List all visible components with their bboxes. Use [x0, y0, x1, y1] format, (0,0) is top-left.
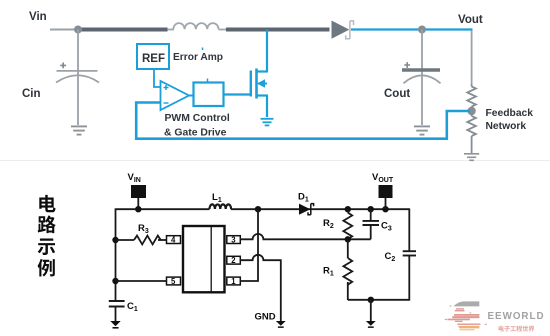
svg-text:D1: D1 — [298, 192, 309, 204]
node Cout junction — [418, 26, 426, 34]
ground GND arrow — [276, 321, 286, 328]
box REF — [137, 44, 169, 69]
wire pin5 to left rail — [116, 280, 167, 282]
pin 5 — [167, 277, 181, 286]
wire to ground — [370, 300, 372, 321]
resistor feedback lower — [467, 112, 476, 153]
svg-text:C2: C2 — [385, 251, 396, 263]
diode D1 — [299, 204, 314, 215]
box PWM block — [194, 79, 224, 107]
svg-text:3: 3 — [231, 236, 236, 245]
ground Cout — [414, 126, 430, 134]
svg-text:GND: GND — [255, 312, 276, 323]
svg-text:Cout: Cout — [384, 88, 410, 100]
wire bottom rail — [348, 299, 410, 301]
wire input thin — [50, 29, 80, 31]
wire feedback loop (cyan) — [136, 103, 470, 139]
svg-text:EEWORLD: EEWORLD — [488, 311, 545, 322]
label PWM Control & Gate Drive — [164, 113, 230, 139]
resistor R2 — [343, 209, 352, 239]
svg-text:Vin: Vin — [29, 11, 47, 23]
logo EEWORLD icon — [445, 301, 487, 330]
op-amp error amplifier — [161, 81, 190, 110]
capacitor C3 — [363, 209, 380, 239]
ground MOSFET — [261, 119, 274, 126]
svg-text:& Gate Drive: & Gate Drive — [164, 128, 227, 139]
node VOUT junction — [382, 206, 388, 212]
node R2 bottom junction — [345, 236, 351, 242]
node pin5 junction — [112, 278, 118, 284]
node VIN junction — [135, 206, 141, 212]
inductor L1 — [210, 204, 232, 209]
pin 1 — [227, 277, 241, 286]
ground feedback — [464, 154, 479, 161]
logo chinese text — [498, 326, 534, 332]
ground Cin — [71, 126, 87, 134]
node feedback junction — [467, 107, 475, 115]
resistor R3 — [116, 236, 167, 245]
wire top rail — [116, 208, 410, 210]
label 电路示例 — [38, 195, 56, 277]
node C3 top junction — [368, 206, 374, 212]
wire PWM block to gate — [224, 93, 251, 95]
node R3 junction — [112, 237, 118, 243]
wire thick inductor to diode — [226, 28, 330, 32]
IC U1 body — [183, 226, 225, 292]
pin 2 — [227, 256, 241, 265]
wire thin inductor right lead — [219, 29, 228, 31]
resistor R1 — [343, 239, 352, 300]
transistor MOSFET (top) — [251, 30, 267, 118]
pin 4 — [167, 236, 181, 245]
capacitor C1 — [109, 301, 125, 321]
wire Vout corner down to feedback — [471, 31, 473, 85]
svg-text:R2: R2 — [323, 218, 334, 230]
wire switch node to pin1 — [240, 209, 258, 281]
svg-text:VIN: VIN — [128, 172, 141, 184]
svg-text:REF: REF — [142, 53, 165, 65]
node R2 top junction — [345, 206, 351, 212]
node ground junction — [368, 297, 374, 303]
svg-text:C3: C3 — [381, 221, 392, 233]
svg-text:Vout: Vout — [458, 14, 483, 26]
svg-text:2: 2 — [231, 256, 236, 265]
capacitor Cout — [402, 30, 441, 126]
svg-text:R1: R1 — [323, 266, 334, 278]
terminal VIN pad — [131, 185, 146, 198]
node L1-D1 junction — [255, 206, 261, 212]
svg-text:PWM Control: PWM Control — [165, 113, 230, 124]
wire pin3 to R2 bottom (with hop) — [240, 234, 370, 239]
label Feedback Network — [486, 108, 534, 132]
wire pin2 to GND (with hop) — [240, 255, 280, 321]
wire thin inductor leads — [168, 29, 175, 31]
inductor L (top) — [173, 23, 218, 29]
ground bottom arrow — [366, 321, 376, 328]
wire thick Vin to inductor — [78, 28, 168, 32]
capacitor Cin — [56, 30, 99, 126]
terminal VOUT pad — [379, 185, 393, 198]
wire diode to Vout (cyan) — [351, 28, 473, 30]
capacitor C2 — [403, 208, 416, 300]
wire VOUT pad down — [385, 198, 387, 209]
svg-text:R3: R3 — [138, 223, 149, 235]
wire VIN pad to rail — [137, 198, 139, 209]
resistor feedback upper — [467, 84, 476, 110]
svg-text:1: 1 — [231, 277, 236, 286]
svg-text:L1: L1 — [212, 192, 222, 204]
ground C1 — [110, 321, 120, 329]
svg-text:Error Amp: Error Amp — [173, 52, 223, 63]
wire REF to op-amp — [154, 69, 160, 87]
svg-text:5: 5 — [171, 277, 176, 286]
svg-text:Network: Network — [486, 121, 527, 132]
node Vin junction — [74, 26, 82, 34]
svg-text:VOUT: VOUT — [372, 172, 394, 184]
pin 3 — [227, 236, 241, 245]
divider line — [0, 160, 550, 161]
mark caret above Amp — [202, 48, 204, 51]
wire left rail — [115, 208, 117, 300]
svg-text:4: 4 — [171, 236, 176, 245]
svg-text:Cin: Cin — [22, 88, 41, 100]
diode D (top, schottky) — [332, 21, 354, 39]
wire op-amp output — [188, 95, 194, 97]
svg-text:C1: C1 — [127, 301, 138, 313]
svg-text:Feedback: Feedback — [486, 108, 534, 119]
